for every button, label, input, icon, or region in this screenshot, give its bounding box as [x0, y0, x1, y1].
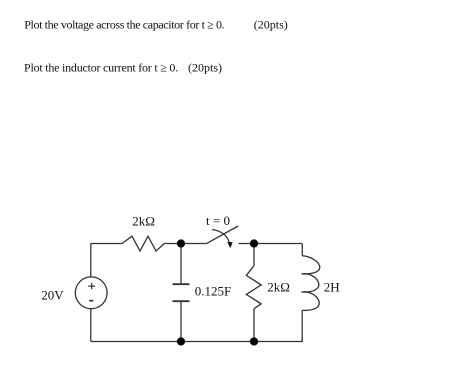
svg-text:0.125F: 0.125F: [195, 283, 231, 298]
bottom node B' junction dot: [250, 337, 258, 345]
voltage source V1 circle: [75, 277, 107, 309]
resistor R2 2kOhm vertical zigzag: [246, 266, 261, 309]
left rail lower (source to bottom corner): [90, 309, 92, 342]
capacitor branch bottom wire: [180, 301, 182, 341]
capacitor C1 bottom plate: [173, 300, 190, 302]
switch S1 blade: [206, 226, 238, 244]
R2 branch top wire: [253, 244, 255, 266]
inductor L1 2H coils: [302, 256, 320, 311]
svg-text:2H: 2H: [324, 279, 340, 294]
svg-text:Plot the inductor current for: Plot the inductor current for t ≥ 0.: [24, 61, 178, 75]
capacitor C1 top plate: [173, 283, 190, 285]
R2 branch bottom wire: [253, 309, 255, 342]
wire switch to node B and top-right corner: [239, 243, 303, 245]
switch arrowhead: [227, 242, 232, 248]
svg-text:20V: 20V: [41, 287, 64, 302]
resistor R1 2kOhm horizontal zigzag: [122, 236, 164, 251]
wire R1 to node A: [164, 243, 181, 245]
switch S1 action arc: [212, 230, 229, 243]
voltage source minus sign: [89, 300, 93, 302]
voltage source plus sign: [88, 283, 95, 289]
right rail bottom lead from inductor: [301, 310, 303, 341]
wire top-left (source to R1): [91, 243, 122, 245]
wire node A to switch: [181, 243, 206, 245]
svg-text:2kΩ: 2kΩ: [267, 279, 290, 294]
svg-text:(20pts): (20pts): [188, 61, 222, 75]
svg-text:Plot the voltage across the ca: Plot the voltage across the capacitor fo…: [24, 17, 224, 31]
node A junction dot: [177, 239, 185, 247]
bottom node A' junction dot: [177, 337, 185, 345]
capacitor branch top wire: [180, 244, 182, 285]
svg-text:t = 0: t = 0: [206, 213, 230, 228]
bottom wire: [91, 341, 303, 343]
node B junction dot: [250, 239, 258, 247]
svg-text:(20pts): (20pts): [254, 17, 288, 31]
svg-text:2kΩ: 2kΩ: [132, 214, 155, 229]
left rail upper (corner to source): [90, 244, 92, 278]
right rail top lead into inductor: [301, 244, 303, 256]
